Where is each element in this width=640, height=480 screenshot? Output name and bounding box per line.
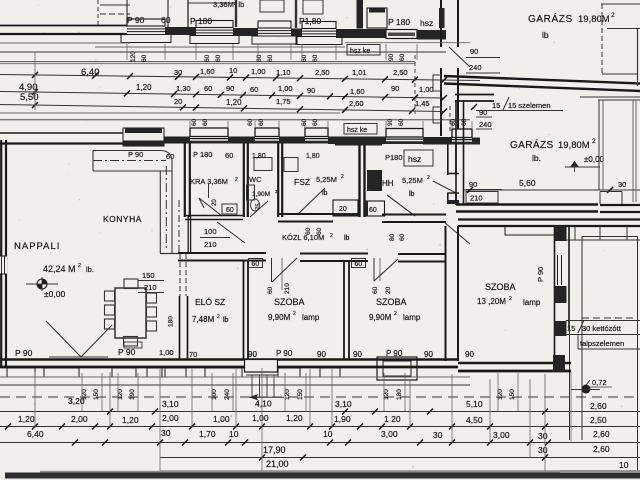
svg-text:P 180: P 180 bbox=[193, 150, 212, 159]
svg-text:hsz ke: hsz ke bbox=[347, 127, 367, 134]
svg-text:60: 60 bbox=[267, 54, 274, 62]
svg-text:P 90: P 90 bbox=[118, 347, 136, 357]
svg-text:150: 150 bbox=[297, 389, 304, 400]
wall junction column below door bbox=[440, 68, 442, 136]
svg-text:1,80: 1,80 bbox=[252, 153, 266, 160]
svg-text:2,60: 2,60 bbox=[593, 444, 610, 454]
wire bottom dim line A bbox=[0, 376, 470, 378]
svg-text:5,25M: 5,25M bbox=[402, 176, 423, 185]
svg-text:60: 60 bbox=[250, 85, 258, 94]
window KRA north bbox=[190, 128, 228, 144]
wire dim line L6 bbox=[0, 92, 444, 99]
wire vert ext x35 bbox=[34, 52, 36, 110]
svg-text:20: 20 bbox=[385, 286, 392, 294]
svg-text:±0,00: ±0,00 bbox=[44, 289, 65, 299]
wire dim faint L8 bbox=[0, 112, 340, 114]
svg-text:2: 2 bbox=[509, 296, 512, 302]
wall KRA left bbox=[184, 144, 186, 218]
svg-text:10: 10 bbox=[323, 429, 333, 439]
wire partial rooms right of szoba3 bbox=[574, 226, 576, 240]
wire bottom rotated-label frame verticals bbox=[81, 373, 83, 411]
svg-text:90: 90 bbox=[465, 350, 474, 359]
svg-text:60: 60 bbox=[305, 227, 312, 235]
svg-text:90: 90 bbox=[353, 350, 362, 359]
wall szoba3 right upper bbox=[554, 226, 556, 361]
wire vert ext lines top band bbox=[126, 44, 128, 60]
svg-text:4,10: 4,10 bbox=[255, 399, 272, 409]
wall W1 left outline bbox=[0, 25, 127, 27]
wire dash elosz nw bbox=[178, 200, 180, 254]
svg-text:150: 150 bbox=[142, 271, 155, 280]
svg-text:1,20: 1,20 bbox=[136, 83, 152, 92]
svg-text:ELÓ SZ: ELÓ SZ bbox=[195, 297, 225, 307]
svg-text:1,00: 1,00 bbox=[159, 348, 174, 357]
entry arrow bbox=[249, 396, 284, 398]
svg-text:60: 60 bbox=[161, 15, 171, 25]
svg-text:210: 210 bbox=[284, 283, 291, 294]
svg-text:SZOBA: SZOBA bbox=[274, 297, 305, 307]
svg-text:1,00: 1,00 bbox=[251, 67, 266, 76]
svg-text:1,60: 1,60 bbox=[200, 67, 215, 76]
wall garage2 bottom bbox=[456, 203, 598, 205]
wall elosz left dashed bbox=[179, 254, 181, 296]
svg-text:2: 2 bbox=[78, 263, 81, 269]
wall elosz nw corner bbox=[187, 216, 189, 254]
svg-text:19,80M: 19,80M bbox=[578, 14, 610, 25]
svg-text:SZOBA: SZOBA bbox=[485, 282, 516, 292]
wall bottom right end piece bbox=[553, 355, 565, 372]
svg-text:60: 60 bbox=[204, 54, 211, 62]
wall band b bbox=[228, 137, 255, 144]
wall hsz east upper bbox=[447, 144, 449, 175]
wall konyha east vertical bbox=[159, 171, 161, 253]
node hszke box mid bbox=[344, 124, 377, 135]
svg-text:1,20: 1,20 bbox=[286, 413, 303, 423]
svg-text:lb: lb bbox=[223, 317, 229, 324]
svg-text:15: 15 bbox=[492, 101, 500, 110]
window FSZ north bbox=[305, 128, 328, 144]
svg-text:2,50: 2,50 bbox=[590, 415, 607, 425]
wall stub garage2 top-left bbox=[455, 94, 494, 96]
wall corridor north outline bbox=[185, 215, 243, 217]
svg-text:30: 30 bbox=[538, 431, 548, 441]
svg-text:3,10: 3,10 bbox=[335, 399, 352, 409]
window top wall 3 bbox=[258, 21, 291, 36]
svg-text:60: 60 bbox=[252, 261, 260, 268]
wire garage1 right corner bbox=[601, 4, 603, 74]
svg-text:60: 60 bbox=[166, 152, 174, 161]
node 60 box HH bbox=[365, 201, 385, 216]
wire dim top L0 bbox=[0, 42, 130, 44]
svg-text:lamp: lamp bbox=[302, 313, 320, 322]
wall W1 d bbox=[336, 29, 386, 38]
dim rotated KRA 20 bbox=[208, 183, 210, 198]
node hszke box top bbox=[347, 45, 380, 56]
wire bottom dim line E bbox=[0, 426, 640, 428]
wall KRA right bbox=[243, 144, 245, 218]
svg-text:30: 30 bbox=[161, 428, 171, 438]
wire bottom dim line F bbox=[0, 442, 640, 444]
svg-text:60: 60 bbox=[369, 207, 377, 214]
wall band e bbox=[423, 137, 452, 145]
svg-text:19,80M: 19,80M bbox=[558, 140, 590, 151]
svg-text:7,48M: 7,48M bbox=[192, 315, 215, 324]
node kettozott talpszelemen bbox=[566, 320, 640, 322]
svg-text:±0,00: ±0,00 bbox=[584, 155, 605, 164]
dim 90 240 left of garage2 bbox=[471, 104, 477, 110]
svg-text:hsz: hsz bbox=[408, 154, 421, 164]
svg-text:15: 15 bbox=[567, 324, 575, 333]
svg-text:1,70: 1,70 bbox=[199, 429, 216, 439]
wire bottom dim line B bbox=[0, 384, 470, 386]
svg-text:10: 10 bbox=[229, 429, 239, 439]
svg-text:90: 90 bbox=[226, 84, 234, 93]
svg-text:240: 240 bbox=[224, 389, 231, 400]
svg-text:150: 150 bbox=[509, 389, 516, 400]
wall hsz east lower chunk bbox=[447, 193, 449, 205]
svg-text:60: 60 bbox=[461, 118, 468, 126]
svg-text:1,00: 1,00 bbox=[213, 414, 230, 424]
svg-text:60: 60 bbox=[202, 118, 209, 126]
door swing corridor left bbox=[217, 222, 245, 243]
wall szoba1-elosz bbox=[243, 261, 245, 359]
svg-text:20: 20 bbox=[339, 206, 347, 213]
svg-text:1,80: 1,80 bbox=[306, 153, 320, 160]
window bay hsz east b bbox=[433, 107, 441, 123]
svg-text:60: 60 bbox=[267, 286, 274, 294]
door swing szoba1 bbox=[271, 258, 273, 282]
window szoba3 right wall bbox=[557, 255, 559, 285]
svg-text:210: 210 bbox=[204, 240, 217, 249]
wall band a bbox=[164, 137, 190, 144]
wire bottom dim line H bbox=[160, 470, 640, 472]
wall szoba3 right mid pier bbox=[555, 286, 567, 303]
svg-text:2,60: 2,60 bbox=[349, 99, 364, 108]
window west wall nappali bbox=[0, 256, 7, 274]
svg-text:90: 90 bbox=[317, 350, 326, 359]
svg-text:P 180: P 180 bbox=[388, 17, 410, 27]
svg-text:P180: P180 bbox=[385, 153, 403, 162]
wall W1 c bbox=[291, 29, 302, 37]
svg-text:90: 90 bbox=[391, 84, 399, 93]
svg-text:60: 60 bbox=[301, 118, 308, 126]
wall HH pier bbox=[367, 170, 382, 191]
svg-text:60: 60 bbox=[312, 54, 319, 62]
svg-text:talpszelemen: talpszelemen bbox=[580, 339, 624, 348]
svg-text:1,60: 1,60 bbox=[350, 87, 365, 96]
svg-text:HH: HH bbox=[382, 179, 394, 188]
svg-text:KONYHA: KONYHA bbox=[103, 214, 142, 224]
svg-text:2: 2 bbox=[394, 311, 397, 317]
svg-text:WC: WC bbox=[249, 175, 262, 184]
svg-text:4,50: 4,50 bbox=[466, 415, 483, 425]
svg-text:6,40: 6,40 bbox=[81, 67, 100, 78]
svg-text:120: 120 bbox=[130, 51, 137, 62]
svg-text:SZOBA: SZOBA bbox=[376, 297, 407, 307]
wall elosz left solid low bbox=[179, 296, 181, 359]
svg-text:5,25M: 5,25M bbox=[316, 175, 337, 184]
svg-text:3,36M² lb: 3,36M² lb bbox=[213, 0, 244, 9]
svg-text:20: 20 bbox=[212, 199, 218, 206]
svg-text:1 20: 1 20 bbox=[384, 414, 401, 424]
wall szoba3 right low pier bbox=[555, 321, 567, 336]
svg-text:60: 60 bbox=[215, 54, 222, 62]
svg-text:2: 2 bbox=[427, 175, 430, 181]
svg-text:lb: lb bbox=[322, 190, 328, 197]
svg-text:6,40: 6,40 bbox=[27, 429, 44, 439]
svg-text:P 90: P 90 bbox=[128, 150, 143, 159]
svg-text:210: 210 bbox=[144, 283, 157, 292]
wire bottom dim line D bbox=[0, 411, 640, 413]
svg-text:P 180: P 180 bbox=[190, 16, 212, 26]
svg-text:5,50: 5,50 bbox=[20, 92, 39, 103]
wall garage1 bottom sloped bbox=[444, 76, 640, 84]
door sill entrance bbox=[377, 357, 417, 380]
svg-text:90: 90 bbox=[479, 108, 487, 117]
wall band d bbox=[328, 137, 386, 145]
svg-text:60: 60 bbox=[226, 207, 234, 214]
node 60 box szoba1 door bbox=[249, 259, 263, 268]
window P90 konyha bbox=[123, 128, 164, 146]
paper speckles bbox=[208, 74, 210, 76]
door swing FSZ bbox=[297, 188, 325, 215]
svg-text:P 90: P 90 bbox=[15, 348, 33, 358]
door swing WC bbox=[250, 201, 268, 217]
wire garage2 far right lines bbox=[632, 100, 634, 202]
svg-text:13 ,20M: 13 ,20M bbox=[477, 297, 506, 306]
svg-text:lamp: lamp bbox=[523, 298, 541, 307]
svg-text:90: 90 bbox=[387, 118, 394, 126]
svg-text:30: 30 bbox=[618, 180, 626, 189]
svg-text:0,72: 0,72 bbox=[592, 378, 607, 387]
wall szoba3 left bbox=[445, 226, 447, 361]
svg-text:1,01: 1,01 bbox=[352, 68, 367, 77]
svg-text:90: 90 bbox=[424, 350, 433, 359]
svg-text:1,90: 1,90 bbox=[334, 414, 351, 424]
door swing garage1 bbox=[449, 47, 470, 67]
svg-text:80: 80 bbox=[389, 233, 396, 241]
wall WC right bbox=[277, 144, 279, 218]
wire dim line L7 bbox=[0, 105, 444, 112]
svg-text:5,60: 5,60 bbox=[519, 178, 536, 188]
svg-text:2: 2 bbox=[217, 314, 220, 320]
svg-text:2,50: 2,50 bbox=[393, 68, 408, 77]
svg-text:9,90M: 9,90M bbox=[369, 313, 392, 322]
wire dim line L5 bbox=[0, 75, 480, 81]
wire vert dashed x415 bbox=[414, 55, 416, 114]
wall konyha L recess bbox=[93, 150, 161, 152]
svg-text:2: 2 bbox=[341, 174, 344, 180]
svg-text:lb: lb bbox=[344, 235, 350, 242]
window szoba3 north sill bbox=[505, 226, 555, 235]
svg-text:P 90: P 90 bbox=[276, 349, 293, 358]
wall pier x357 top bbox=[357, 0, 364, 29]
svg-text:P1,80: P1,80 bbox=[299, 16, 321, 26]
wall bottom main bbox=[0, 358, 458, 361]
svg-text:2,50: 2,50 bbox=[315, 68, 330, 77]
svg-text:2,60: 2,60 bbox=[590, 401, 607, 411]
window P1,80 top wall bbox=[302, 22, 336, 37]
svg-text:42,24 M: 42,24 M bbox=[43, 264, 76, 274]
svg-text:10: 10 bbox=[229, 66, 237, 75]
svg-text:1,30: 1,30 bbox=[176, 84, 191, 93]
svg-text:17,90: 17,90 bbox=[263, 445, 286, 455]
svg-text:90: 90 bbox=[388, 53, 395, 61]
window bay hsz east a bbox=[433, 75, 441, 91]
svg-text:2: 2 bbox=[330, 233, 333, 239]
svg-text:15 szelemen: 15 szelemen bbox=[508, 101, 551, 110]
wire dim top L3 bbox=[0, 61, 415, 63]
wire dim top L1 bbox=[95, 46, 345, 48]
svg-text:60: 60 bbox=[258, 118, 265, 126]
svg-text:180: 180 bbox=[396, 389, 403, 400]
wall W1 e bbox=[417, 30, 446, 40]
svg-text:2: 2 bbox=[293, 311, 296, 317]
svg-text:10: 10 bbox=[619, 460, 629, 470]
svg-text:180: 180 bbox=[168, 316, 175, 327]
wall garage2 left bbox=[455, 100, 457, 205]
svg-text:GARÁZS: GARÁZS bbox=[528, 12, 573, 25]
window P90 top wall bbox=[127, 19, 165, 35]
door swing nappali V bbox=[46, 321, 81, 357]
svg-text:60: 60 bbox=[312, 118, 319, 126]
svg-text:2,00: 2,00 bbox=[71, 414, 88, 424]
wire dim top L4 bbox=[0, 63, 415, 65]
wall szoba1-szoba2 bbox=[343, 261, 345, 359]
svg-text:60: 60 bbox=[399, 233, 406, 241]
node chimney box bbox=[367, 8, 387, 28]
svg-text:5,10: 5,10 bbox=[466, 399, 483, 409]
svg-text:2: 2 bbox=[592, 138, 596, 145]
wire bottom dim line C bbox=[0, 396, 640, 398]
window hsz top wall bbox=[386, 30, 417, 39]
svg-text:1,20: 1,20 bbox=[122, 415, 139, 425]
svg-text:240: 240 bbox=[469, 63, 482, 72]
svg-text:2,00: 2,00 bbox=[162, 413, 179, 423]
svg-text:60: 60 bbox=[204, 84, 212, 93]
svg-text:30 kettózótt: 30 kettózótt bbox=[582, 324, 622, 333]
svg-text:lb.: lb. bbox=[86, 265, 94, 274]
svg-text:1,00: 1,00 bbox=[278, 84, 293, 93]
wall bottom right wing bbox=[458, 362, 571, 365]
wall T-bar hsz bbox=[335, 137, 382, 146]
svg-text:1,75: 1,75 bbox=[276, 97, 291, 106]
svg-text:FSZ: FSZ bbox=[294, 177, 310, 187]
svg-text:2: 2 bbox=[235, 177, 238, 183]
door swing corridor right bbox=[444, 222, 470, 244]
svg-text:90: 90 bbox=[470, 47, 478, 56]
svg-text:1,90M: 1,90M bbox=[252, 191, 270, 198]
level mark -0,72 bbox=[582, 385, 591, 394]
wall nappali north outline bbox=[0, 132, 123, 134]
svg-text:150: 150 bbox=[93, 389, 100, 400]
svg-text:60: 60 bbox=[355, 261, 363, 268]
svg-text:90: 90 bbox=[307, 86, 315, 95]
svg-text:lamp: lamp bbox=[403, 313, 421, 322]
svg-text:1,20: 1,20 bbox=[18, 414, 35, 424]
wall band f bbox=[472, 138, 480, 145]
wall band c bbox=[279, 137, 305, 144]
furniture dining table bbox=[115, 288, 146, 338]
svg-text:60: 60 bbox=[141, 54, 148, 62]
svg-text:100: 100 bbox=[204, 227, 217, 236]
svg-text:240: 240 bbox=[479, 120, 492, 129]
door swing KRA bbox=[199, 198, 222, 216]
svg-text:3,10: 3,10 bbox=[162, 399, 179, 409]
wall szoba3 north bbox=[458, 218, 640, 220]
wire top room inner lines bbox=[295, 0, 297, 28]
svg-text:60: 60 bbox=[256, 54, 263, 62]
svg-text:2,60: 2,60 bbox=[593, 429, 610, 439]
level mark nappali bbox=[37, 279, 47, 289]
svg-text:60: 60 bbox=[247, 118, 254, 126]
window garage2-left north bbox=[452, 129, 472, 145]
wall FSZ-HH stem bbox=[358, 145, 360, 217]
wall W1 a bbox=[165, 27, 196, 35]
svg-text:hsz ke: hsz ke bbox=[350, 48, 370, 55]
svg-text:2: 2 bbox=[611, 12, 615, 19]
svg-text:190: 190 bbox=[129, 389, 136, 400]
svg-text:1,00: 1,00 bbox=[252, 413, 269, 423]
entrance steps bbox=[251, 375, 253, 397]
svg-text:P 90: P 90 bbox=[536, 267, 545, 282]
svg-text:GARÁZS: GARÁZS bbox=[510, 138, 554, 151]
svg-text:60: 60 bbox=[225, 151, 233, 160]
svg-text:90: 90 bbox=[248, 350, 257, 359]
svg-text:21,00: 21,00 bbox=[266, 459, 289, 469]
wire dim top L2 bbox=[0, 51, 446, 53]
svg-text:60: 60 bbox=[399, 53, 406, 61]
svg-text:60: 60 bbox=[316, 227, 323, 235]
svg-text:210: 210 bbox=[470, 194, 483, 203]
door swing HH bbox=[387, 195, 415, 216]
wire garage2 right wall lines bbox=[598, 100, 600, 190]
wire vert ext above mid-band windows bbox=[189, 121, 191, 128]
wire top room verticals left bbox=[97, 0, 99, 25]
door swing hsz-garage bbox=[433, 181, 456, 193]
svg-text:60: 60 bbox=[398, 118, 405, 126]
svg-text:20: 20 bbox=[174, 97, 182, 106]
node 20 box FSZ bbox=[333, 200, 358, 216]
room WC fixtures bbox=[247, 185, 255, 200]
window P180 top wall bbox=[196, 21, 233, 36]
svg-text:lb: lb bbox=[409, 191, 415, 198]
scanner dark band bottom bbox=[5, 473, 640, 479]
door swing szoba2 bbox=[373, 258, 375, 281]
door opening entrance bbox=[245, 360, 278, 373]
svg-text:3,00: 3,00 bbox=[493, 430, 510, 440]
svg-text:1,00: 1,00 bbox=[419, 85, 434, 94]
svg-text:1,20: 1,20 bbox=[226, 98, 242, 107]
wire bottom dim line G bbox=[160, 457, 640, 459]
wire dim line L9 bbox=[0, 119, 470, 121]
svg-text:30: 30 bbox=[433, 430, 443, 440]
svg-text:3,00: 3,00 bbox=[381, 429, 398, 439]
wall W1 b bbox=[233, 28, 258, 36]
svg-text:lb.: lb. bbox=[532, 153, 541, 163]
node 60 box szoba2 door bbox=[352, 259, 366, 268]
window WC north bbox=[255, 128, 279, 144]
svg-text:lb: lb bbox=[542, 30, 549, 40]
svg-text:60: 60 bbox=[372, 286, 379, 294]
svg-text:hsz: hsz bbox=[420, 18, 433, 28]
svg-text:P 90: P 90 bbox=[127, 15, 145, 25]
wire right column verticals bbox=[569, 330, 571, 440]
wall left exterior bbox=[0, 140, 2, 368]
window sills bottom wall bbox=[7, 368, 35, 377]
svg-text:9,90M: 9,90M bbox=[268, 313, 291, 322]
wall corridor south outline bbox=[178, 252, 266, 254]
